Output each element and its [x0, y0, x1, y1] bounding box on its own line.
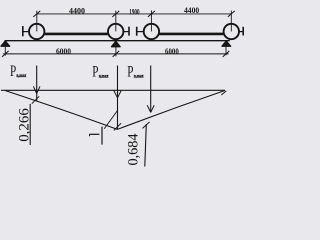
- wheel circle 4: [224, 24, 239, 39]
- load arrow 2 shaft: [117, 66, 119, 130]
- svg-text:6000: 6000: [56, 46, 71, 56]
- buffer stub wheel2: [123, 31, 128, 33]
- support A base bar: [1, 45, 11, 47]
- load arrow 3 shaft: [150, 66, 152, 113]
- buffer bar right of wheel2: [128, 27, 130, 36]
- svg-text:P: P: [127, 63, 133, 80]
- support C base bar: [222, 45, 232, 47]
- ordinate 0.684 tick slash: [143, 122, 150, 128]
- extension line wheel2: [115, 11, 117, 32]
- tick slash at wheel2: [112, 11, 119, 17]
- tick slash at support A: [2, 51, 9, 57]
- support triangle B: [112, 41, 120, 46]
- top dimension line: [37, 13, 231, 15]
- wheel circle 1: [29, 24, 44, 39]
- svg-text:P: P: [92, 63, 98, 80]
- svg-text:6000: 6000: [165, 46, 179, 56]
- apex tick slash: [114, 123, 121, 130]
- ordinate label 1 bar: [101, 127, 103, 145]
- svg-text:n,max: n,max: [16, 74, 26, 79]
- right end tick slash: [221, 91, 226, 95]
- load arrow 1 shaft: [36, 66, 38, 102]
- rail line: [5, 40, 230, 42]
- extension line wheel3: [150, 10, 152, 31]
- ordinate 0.684 dimension line: [145, 124, 147, 167]
- influence line baseline: [1, 89, 225, 91]
- ordinate 0.266 tick slash: [32, 96, 39, 103]
- support B base bar: [111, 46, 121, 48]
- buffer stub wheel4: [239, 31, 243, 33]
- influence line right branch: [117, 91, 224, 130]
- crane beam 1 (between wheels 1-2): [45, 33, 108, 36]
- svg-text:n,max: n,max: [99, 74, 109, 79]
- buffer bar left of wheel1: [22, 26, 24, 36]
- extension line wheel4: [230, 11, 232, 32]
- svg-text:1900: 1900: [129, 8, 139, 17]
- svg-text:4400: 4400: [69, 6, 85, 16]
- tick slash at wheel4: [228, 11, 235, 17]
- load label P2: [92, 63, 109, 80]
- load arrow 1 head: [33, 86, 40, 93]
- wheel circle 2: [108, 24, 123, 39]
- tick slash at support C: [223, 51, 230, 57]
- svg-text:0,684: 0,684: [126, 133, 142, 165]
- load arrow 2 head: [114, 91, 121, 98]
- tick slash at wheel1: [33, 11, 40, 17]
- ordinate label 1 leader: [104, 111, 117, 129]
- buffer bar right of wheel4: [242, 27, 244, 36]
- support B extension: [115, 47, 117, 57]
- support C extension: [225, 46, 227, 55]
- tick slash at wheel3: [148, 11, 155, 17]
- svg-text:n,max: n,max: [134, 74, 144, 79]
- lower dimension line: [3, 53, 229, 55]
- ordinate label 1 serif flag: [89, 134, 91, 136]
- extension line wheel1: [36, 11, 38, 32]
- buffer stub wheel1: [24, 31, 30, 33]
- svg-text:P: P: [10, 63, 16, 80]
- ordinate label 1 stem: [89, 133, 99, 135]
- load arrow 3 head: [147, 105, 154, 112]
- load label P3: [127, 63, 144, 80]
- svg-text:0,266: 0,266: [16, 108, 32, 142]
- support A extension: [4, 46, 6, 55]
- ordinate 0.266 dimension line: [29, 104, 31, 145]
- svg-text:4400: 4400: [184, 5, 199, 15]
- buffer bar left of wheel3: [136, 27, 138, 36]
- influence line left branch: [5, 91, 117, 130]
- support triangle A: [1, 41, 9, 46]
- tick slash at support B: [113, 51, 120, 57]
- load label P1: [10, 63, 27, 80]
- buffer stub wheel3: [137, 31, 143, 33]
- crane beam 2 (between wheels 3-4): [159, 33, 223, 36]
- support triangle C: [222, 41, 230, 46]
- wheel circle 3: [144, 24, 159, 39]
